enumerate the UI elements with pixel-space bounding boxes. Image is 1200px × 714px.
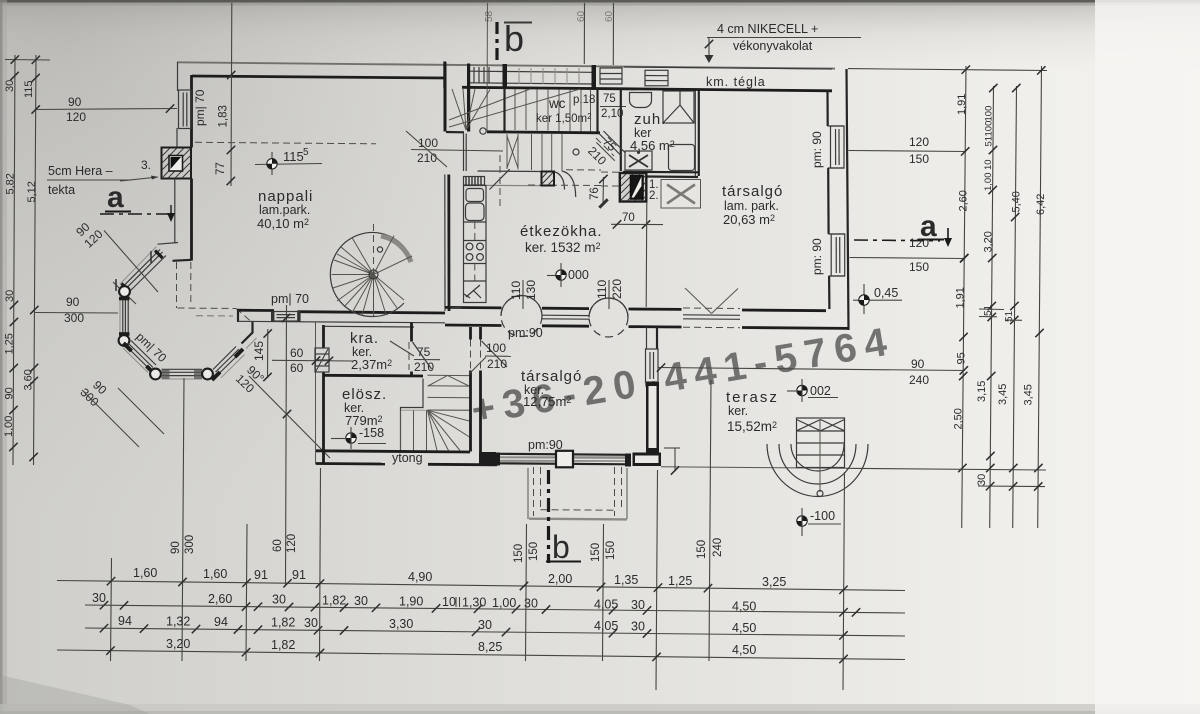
- svg-text:60: 60: [604, 10, 615, 22]
- bay entry shoulder: [158, 243, 179, 245]
- right margin bright strip: [1095, 0, 1200, 714]
- ticks R2: [989, 146, 997, 154]
- zuh shower tray: [625, 151, 652, 170]
- ticks R1: [960, 254, 968, 262]
- svg-text:150: 150: [605, 541, 617, 560]
- chain line 1: [57, 581, 905, 591]
- vertical ext lines above NE wall: [583, 3, 585, 64]
- svg-text:30: 30: [4, 290, 16, 302]
- rotated labels R1: [956, 94, 968, 115]
- door 75/210 diagonal to zuh: [599, 134, 621, 156]
- wall: kra west outer thin: [315, 322, 317, 465]
- chimney block west wall: [162, 148, 192, 179]
- svg-text:145: 145: [252, 341, 266, 361]
- dashes left of chimney: [601, 171, 619, 173]
- kitchen counter outline: [464, 186, 487, 303]
- svg-text:240: 240: [712, 538, 724, 557]
- svg-text:91: 91: [292, 568, 306, 582]
- bottom cell w/ diagonal: [464, 281, 487, 298]
- spiral treads: [332, 236, 413, 317]
- wall: kitchen/nappali divider: [444, 175, 446, 312]
- svg-text:1,60: 1,60: [133, 566, 157, 580]
- window: north W3 small: [600, 68, 622, 84]
- svg-text:300: 300: [184, 535, 196, 554]
- bay window segment C (lower-left diagonal): [123, 341, 156, 375]
- bay post P3: [150, 369, 161, 380]
- rotated labels lower: [4, 333, 16, 354]
- svg-text:150: 150: [909, 152, 929, 166]
- rotated labels R2: [984, 106, 995, 122]
- level marker 000: [547, 263, 589, 287]
- svg-text:b: b: [504, 18, 524, 59]
- svg-text:210: 210: [417, 151, 437, 165]
- svg-text:5,82: 5,82: [5, 173, 17, 194]
- wall: stair landing (thick): [487, 132, 600, 133]
- wall: nappali north inner: [192, 76, 445, 78]
- svg-text:b: b: [552, 529, 570, 565]
- svg-text:10: 10: [442, 595, 456, 609]
- svg-text:30: 30: [631, 620, 645, 634]
- svg-text:220: 220: [610, 279, 624, 299]
- chimney small hatched (stair): [542, 172, 555, 186]
- svg-text:40,10 m2: 40,10 m2: [257, 216, 309, 231]
- dashed terrace below: [528, 467, 627, 519]
- lower connector: [978, 485, 1045, 488]
- spiral dashed axis: [373, 224, 375, 312]
- svg-text:90: 90: [68, 95, 82, 109]
- bay post P1: [119, 286, 130, 297]
- svg-text:3,45: 3,45: [1023, 384, 1035, 405]
- svg-text:100: 100: [984, 121, 995, 137]
- svg-text:150: 150: [590, 543, 602, 562]
- svg-text:90: 90: [911, 357, 925, 371]
- svg-text:0,45: 0,45: [874, 286, 898, 300]
- handrail quarter arcs: [552, 171, 565, 190]
- svg-text:1,82: 1,82: [271, 638, 295, 652]
- wall: elosz top: [324, 374, 424, 378]
- X-box (kandallo): [661, 180, 701, 209]
- svg-text:társalgó: társalgó: [722, 183, 783, 200]
- wall: kra east w/ door gap: [410, 323, 413, 342]
- svg-text:30: 30: [272, 593, 286, 607]
- dashed counter centerline: [474, 222, 476, 241]
- svg-text:4,56 m2: 4,56 m2: [630, 138, 675, 153]
- svg-text:1,32: 1,32: [166, 615, 190, 629]
- svg-text:75: 75: [603, 93, 616, 105]
- vertical dim lines R1-R4: [962, 66, 966, 528]
- svg-text:10: 10: [983, 159, 994, 170]
- svg-text:100: 100: [984, 106, 995, 122]
- svg-text:30: 30: [304, 616, 318, 630]
- svg-text:1,91: 1,91: [956, 94, 968, 115]
- corner block SE of hall: [479, 452, 496, 464]
- circle marker on landing: [480, 128, 486, 134]
- bay diagonal leader lower-right: [249, 376, 330, 458]
- glazing between circles (parapet window): [542, 314, 589, 316]
- radiator at counter top: [464, 177, 485, 186]
- svg-text:2,37m2: 2,37m2: [351, 357, 392, 372]
- svg-text:2,60: 2,60: [958, 190, 970, 211]
- ticks mid: [10, 301, 18, 309]
- svg-text:120: 120: [909, 236, 929, 250]
- rotated labels R4: [1035, 194, 1047, 215]
- stove 4 burners: [464, 241, 487, 264]
- wall: NE top band: [624, 67, 832, 69]
- svg-text:3,45: 3,45: [997, 384, 1009, 405]
- svg-text:30: 30: [354, 594, 368, 608]
- wall: ytong bottom thick: [316, 462, 385, 465]
- wall: nappali west below chimney: [174, 179, 176, 244]
- svg-text:115: 115: [283, 149, 304, 164]
- dashed ceiling line nappali: [195, 142, 376, 144]
- window: east W1: [828, 126, 845, 168]
- svg-text:110: 110: [595, 280, 609, 299]
- svg-text:ker 1,50m2: ker 1,50m2: [536, 112, 592, 125]
- bay window segment A (upper-left diagonal): [120, 247, 166, 294]
- svg-text:1,90: 1,90: [399, 595, 423, 609]
- svg-text:pm: 90: pm: 90: [810, 131, 824, 168]
- bay window segment B (west vertical): [119, 297, 130, 336]
- left dim line 1: [13, 55, 15, 465]
- svg-text:70: 70: [622, 212, 635, 224]
- level marker -158: [331, 426, 386, 449]
- wall: zuh east: [694, 90, 696, 177]
- svg-text:58: 58: [484, 10, 495, 22]
- svg-text:4,50: 4,50: [732, 643, 756, 657]
- svg-text:1,60: 1,60: [203, 567, 227, 581]
- label 90deg/120 rotated (bay right diagonal): [233, 361, 267, 395]
- top connector: [5, 59, 50, 62]
- dim 76 vertical: [602, 177, 605, 205]
- svg-text:5: 5: [303, 147, 309, 158]
- wall: ytong top thick: [316, 451, 470, 452]
- svg-text:120: 120: [66, 110, 86, 124]
- wall: east inner segments: [826, 90, 828, 126]
- svg-text:100: 100: [418, 136, 438, 150]
- svg-text:3,15: 3,15: [976, 381, 988, 402]
- rotated labels top: [4, 80, 16, 92]
- svg-text:wc: wc: [548, 96, 566, 111]
- spiral center: [369, 270, 378, 279]
- start V marks: [428, 375, 448, 386]
- rotated label pairs above chain 1: [170, 541, 182, 554]
- sink double: [466, 189, 484, 202]
- level marker 115: [255, 147, 322, 175]
- wc enclosure walls: [503, 88, 505, 131]
- svg-text:ytong: ytong: [392, 451, 423, 465]
- chain line 3: [85, 628, 905, 636]
- band bottom thick segments: [445, 324, 502, 327]
- svg-text:1,30: 1,30: [462, 596, 486, 610]
- opening dashes left of hall: [451, 307, 462, 309]
- svg-text:90: 90: [4, 387, 16, 399]
- small dim next to L-wall: [674, 448, 676, 472]
- svg-text:240: 240: [909, 373, 929, 387]
- chain 4 ticks: [106, 646, 114, 654]
- svg-text:3.: 3.: [141, 158, 151, 172]
- dim line x=231 (nappali interior): [230, 3, 233, 186]
- svg-text:94: 94: [118, 614, 132, 628]
- svg-text:6,42: 6,42: [1035, 194, 1047, 215]
- column circle 2: [589, 298, 628, 337]
- svg-text:30: 30: [524, 597, 538, 611]
- svg-text:210: 210: [487, 357, 507, 371]
- svg-text:15,52m2: 15,52m2: [727, 419, 777, 434]
- bay post P4: [202, 369, 213, 380]
- wall: east of tarsalgo lower: [646, 327, 648, 349]
- stair lower flight treads: [507, 134, 562, 171]
- svg-text:2,00: 2,00: [548, 572, 572, 586]
- door leaf kra: [413, 342, 432, 369]
- svg-text:4,50: 4,50: [732, 600, 756, 614]
- svg-text:77: 77: [215, 162, 227, 175]
- big sliding window band (pm:90): [494, 451, 631, 468]
- scan left edge: [0, 0, 7, 714]
- svg-text:ker.: ker.: [728, 404, 748, 418]
- top connector: [848, 69, 1047, 71]
- zuh tub: [669, 145, 695, 171]
- svg-text:-158: -158: [359, 426, 384, 440]
- left dim line 2: [34, 55, 37, 465]
- svg-text:pm| 70: pm| 70: [271, 292, 309, 306]
- wall: nappali south (top thick line): [237, 309, 274, 312]
- window: kra 60x60: [315, 348, 329, 372]
- svg-text:5,12: 5,12: [26, 181, 38, 202]
- door swing: [490, 169, 510, 189]
- level marker -100: [797, 508, 841, 536]
- bay post P2: [119, 335, 130, 346]
- svg-text:p.18: p.18: [573, 94, 595, 106]
- wall: zuh south: [623, 171, 698, 174]
- svg-text:8,25: 8,25: [478, 640, 502, 654]
- faint top digits above stairs: [484, 10, 495, 22]
- vertical extension lines: [111, 558, 112, 661]
- window: NE W4: [645, 70, 668, 86]
- scan top edge: [0, 0, 1200, 3]
- terasz line across: [846, 468, 1046, 470]
- window pm70 in south wall: [271, 311, 301, 322]
- svg-text:75: 75: [417, 345, 431, 359]
- svg-text:1,82: 1,82: [271, 616, 295, 630]
- section marker b (top): [497, 18, 532, 63]
- svg-text:30: 30: [4, 80, 16, 92]
- spiral outer arc: [330, 233, 409, 317]
- chain line 2: [85, 605, 905, 613]
- svg-text:000: 000: [568, 268, 589, 282]
- door gap dashes + leaf: [470, 340, 472, 371]
- window: nappali west 90/120: [179, 90, 192, 129]
- svg-text:1,25: 1,25: [4, 333, 16, 354]
- svg-text:1,00: 1,00: [3, 416, 15, 437]
- svg-text:30: 30: [92, 591, 106, 605]
- rotated labels R3: [1011, 191, 1023, 212]
- ticks R3: [1011, 213, 1019, 221]
- labels pm:90 rotated: [810, 131, 824, 168]
- chain 1 ticks: [107, 577, 115, 585]
- label 75/210 rotated 45: [585, 132, 625, 172]
- svg-text:150: 150: [909, 260, 929, 274]
- svg-text:1,83: 1,83: [218, 105, 230, 127]
- stair upper flight treads: [504, 89, 591, 132]
- wall: kra west thick: [322, 325, 325, 348]
- svg-text:a: a: [107, 181, 124, 214]
- X cross on first treads: [507, 136, 518, 168]
- chimney main hatched: [620, 173, 647, 202]
- level marker 002: [787, 379, 838, 402]
- wall: east outer: [847, 69, 849, 330]
- svg-text:1,91: 1,91: [955, 287, 967, 308]
- svg-text:pm:90: pm:90: [528, 438, 563, 452]
- svg-text:94: 94: [214, 615, 228, 629]
- svg-text:1,82: 1,82: [322, 594, 346, 608]
- stair winder fan upper-left: [452, 89, 490, 130]
- thick lower pillar: [646, 382, 659, 453]
- ext line from chimney down: [645, 202, 648, 307]
- svg-text:90: 90: [66, 295, 80, 309]
- bay diagonal leader lines lower-left: [82, 390, 139, 447]
- svg-text:2,60: 2,60: [208, 592, 232, 606]
- svg-text:-100: -100: [810, 509, 835, 523]
- svg-text:51: 51: [984, 136, 995, 147]
- wall: nappali west inner upper: [190, 75, 193, 148]
- band top thick segments: [445, 306, 502, 309]
- window: north W1: [470, 67, 503, 83]
- spiral handrail thick arc: [381, 236, 411, 262]
- window in east wall: [646, 349, 659, 382]
- svg-text:vékonyvakolat: vékonyvakolat: [733, 39, 813, 53]
- garden stair rect: [797, 418, 845, 468]
- 5,82 / 5,12 rotated: [5, 173, 17, 194]
- dashed wall continuation across bay: [176, 262, 178, 308]
- svg-text:150: 150: [696, 540, 708, 559]
- bay end wall piece: [242, 321, 253, 344]
- svg-text:60: 60: [290, 361, 304, 375]
- svg-text:tekta: tekta: [48, 183, 75, 197]
- svg-text:lam. park.: lam. park.: [724, 199, 779, 213]
- svg-text:3,30: 3,30: [389, 617, 413, 631]
- svg-text:150: 150: [513, 544, 525, 563]
- svg-text:2.: 2.: [649, 190, 659, 202]
- garden stair curved ramp: [767, 444, 868, 497]
- wire: nappali south bottom face: [238, 321, 445, 323]
- terasz floor edge: [661, 467, 846, 469]
- svg-text:002: 002: [810, 384, 831, 398]
- svg-text:3,60: 3,60: [23, 369, 35, 390]
- dim labels 110/130 rotated: [522, 280, 524, 309]
- svg-text:1,35: 1,35: [614, 573, 638, 587]
- svg-text:20,63 m2: 20,63 m2: [723, 212, 775, 227]
- svg-text:5,40: 5,40: [1011, 191, 1023, 212]
- wall posts on north wall: [443, 62, 446, 89]
- svg-text:lam.park.: lam.park.: [259, 203, 310, 217]
- svg-text:115: 115: [23, 80, 35, 98]
- zuh sink: [629, 93, 651, 108]
- window: east W2: [828, 234, 845, 276]
- svg-text:150: 150: [528, 542, 540, 561]
- label 90/300 rotated lower-left: [77, 375, 111, 409]
- label pm 70 rotated (lower-left bay): [133, 330, 169, 366]
- svg-text:120: 120: [286, 534, 298, 553]
- wall: hall east wall w/ door: [469, 327, 472, 340]
- dim 145 rotated: [267, 329, 269, 378]
- chain 2 ticks: [100, 601, 108, 609]
- elosz inner thin boundary: [401, 379, 424, 451]
- wall: nappali west outer above window: [177, 62, 179, 91]
- bottom-left corner smudge: [0, 675, 150, 714]
- svg-text:110: 110: [509, 281, 523, 300]
- chain 3 ticks: [100, 624, 108, 632]
- ticks R4: [1035, 329, 1043, 337]
- svg-text:100: 100: [486, 341, 506, 355]
- zuh wc: [663, 91, 694, 123]
- svg-text:ker. 1532 m2: ker. 1532 m2: [525, 240, 601, 255]
- window: north W2 (wide, muntins): [507, 68, 592, 84]
- scan bottom edge: [0, 704, 1200, 714]
- label 90/120 rotated (upper bay): [72, 216, 106, 250]
- bay diagonal dim lines (90/120, pm70): [104, 231, 158, 293]
- svg-text:210: 210: [414, 360, 434, 374]
- arrow to chimney: [120, 177, 158, 181]
- svg-text:4,90: 4,90: [408, 570, 432, 584]
- winder rays: [428, 410, 470, 450]
- svg-text:3,20: 3,20: [983, 231, 995, 252]
- svg-text:1,00: 1,00: [492, 596, 516, 610]
- lower flight treads vertical: [401, 411, 427, 452]
- svg-text:91: 91: [254, 568, 268, 582]
- svg-text:76: 76: [589, 187, 601, 200]
- svg-text:4 cm NIKECELL +: 4 cm NIKECELL +: [717, 22, 818, 36]
- svg-text:30: 30: [631, 598, 645, 612]
- column circle 1: [501, 296, 542, 337]
- door jog + jamb (100/210): [446, 131, 464, 134]
- wall: zuh west: [620, 89, 622, 172]
- bay window segment E (lower-right diagonal): [212, 347, 245, 381]
- small circle on tread: [573, 149, 579, 155]
- X-window in band (terrace door east): [683, 288, 740, 328]
- svg-text:4,50: 4,50: [732, 621, 756, 635]
- lower flight boundary: [478, 170, 543, 173]
- svg-text:pm:90: pm:90: [508, 326, 543, 340]
- svg-text:12,75m2: 12,75m2: [523, 394, 571, 409]
- svg-text:étkezökha.: étkezökha.: [520, 223, 603, 240]
- wire: north wall outer face (full width, skewed): [177, 62, 835, 68]
- svg-text:5cm Hera –: 5cm Hera –: [48, 164, 113, 178]
- 51-dim short dashes: [979, 308, 1004, 311]
- dashed walk line: [528, 184, 601, 187]
- center line + circle: [819, 419, 821, 492]
- svg-text:300: 300: [64, 311, 84, 325]
- svg-text:km. tégla: km. tégla: [706, 75, 766, 89]
- treads upper: [428, 375, 470, 410]
- stair cut diagonals: [449, 89, 580, 127]
- wall: kra top inner face: [324, 325, 415, 328]
- svg-text:130: 130: [524, 280, 538, 300]
- svg-text:3,20: 3,20: [166, 637, 190, 651]
- wall end cap at bay: [237, 310, 239, 323]
- svg-text:60: 60: [290, 346, 304, 360]
- bay window segment D (south horizontal): [162, 369, 203, 379]
- svg-text:1,25: 1,25: [668, 574, 692, 588]
- 30 rotated: [4, 290, 16, 302]
- svg-text:60: 60: [576, 10, 587, 22]
- svg-text:30: 30: [976, 474, 988, 486]
- svg-text:120: 120: [909, 135, 929, 149]
- dim line vertical x=286 (window ext.): [286, 305, 287, 586]
- wall: north middle inner face: [462, 87, 624, 89]
- svg-text:pm| 70: pm| 70: [193, 89, 207, 126]
- wall: west side of stair hall (shared w/ nappali): [444, 62, 447, 132]
- svg-text:90: 90: [170, 541, 182, 554]
